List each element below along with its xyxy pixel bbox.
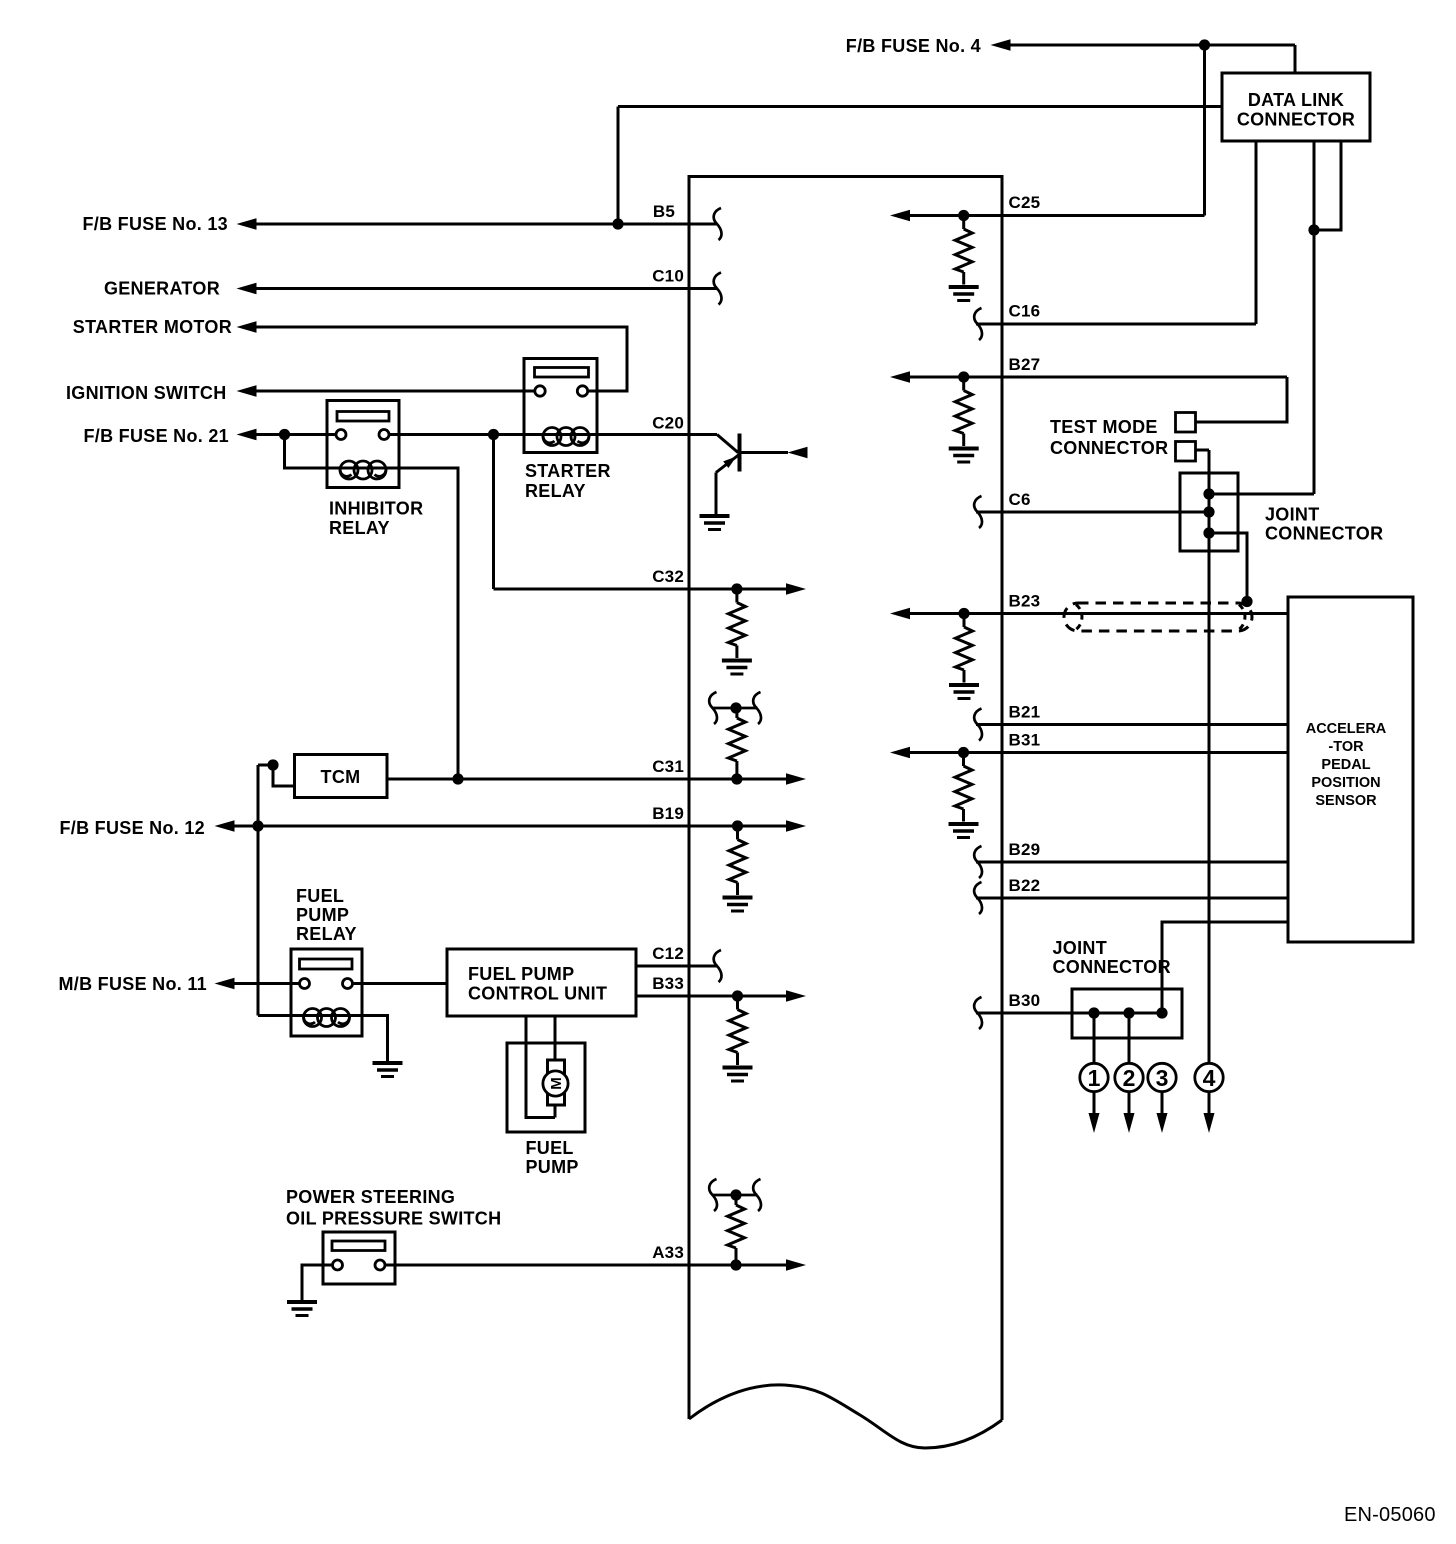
node circle 1 — [1080, 1063, 1108, 1091]
wire sensor 5th pin to lower joint connector — [1162, 922, 1288, 1013]
wire inhibitor coil to C31 riser — [399, 468, 458, 779]
starter relay contact pin left — [535, 386, 545, 396]
node circle 2 — [1115, 1063, 1143, 1091]
ECM torn bottom edge wave — [689, 1385, 1002, 1448]
arrow B33 internal — [786, 990, 806, 1002]
wire C16 riser to DLC — [1255, 141, 1258, 324]
svg-text:CONNECTOR: CONNECTOR — [1050, 438, 1168, 458]
wire B5 riser — [617, 107, 620, 225]
svg-text:JOINT: JOINT — [1265, 505, 1320, 525]
svg-text:SENSOR: SENSOR — [1315, 793, 1377, 809]
svg-text:OIL PRESSURE SWITCH: OIL PRESSURE SWITCH — [286, 1209, 501, 1229]
connector break C16 — [974, 308, 982, 340]
wire emitter to ground — [715, 473, 718, 515]
transistor Q1 collector line — [740, 451, 789, 454]
node A33 — [730, 1259, 741, 1270]
connector break B5 — [714, 208, 722, 240]
wire C10 pin line — [256, 287, 717, 290]
arrow generator — [237, 283, 257, 295]
wire B27 pin line — [909, 376, 1287, 379]
connector break B30 — [974, 997, 982, 1029]
svg-text:A33: A33 — [652, 1243, 684, 1262]
svg-text:-TOR: -TOR — [1328, 739, 1364, 755]
wire J2 pin1 drop — [1093, 1013, 1096, 1065]
fuel pump relay contact pin right — [343, 979, 353, 989]
node junction on fuse4 line — [1199, 39, 1210, 50]
wire DLC 3rd pin — [1314, 141, 1341, 230]
arrow C25 internal — [890, 210, 910, 222]
svg-text:2: 2 — [1123, 1065, 1136, 1091]
wire C6 pin line — [976, 511, 1209, 514]
node C31 inhibitor branch — [452, 773, 463, 784]
svg-text:C12: C12 — [652, 944, 684, 963]
starter relay contact bar — [535, 368, 589, 378]
wire JC pin1 to DLC riser — [1209, 493, 1314, 496]
svg-text:STARTER MOTOR: STARTER MOTOR — [73, 317, 232, 337]
node circle 4 — [1195, 1063, 1223, 1091]
wire left bus vertical — [257, 765, 260, 1016]
shield inner arc left — [1076, 605, 1082, 630]
svg-text:C20: C20 — [652, 414, 684, 433]
svg-text:C10: C10 — [652, 267, 684, 286]
svg-text:C32: C32 — [652, 567, 684, 586]
wire C32 pin line — [494, 588, 788, 591]
svg-text:C31: C31 — [652, 757, 684, 776]
svg-text:TEST MODE: TEST MODE — [1050, 417, 1158, 437]
node J2 pin3 — [1156, 1007, 1167, 1018]
svg-text:B22: B22 — [1009, 876, 1041, 895]
node B33 — [732, 990, 743, 1001]
connector break B21 — [974, 709, 982, 741]
accelerator pedal position sensor box — [1288, 597, 1413, 942]
svg-text:F/B FUSE No. 12: F/B FUSE No. 12 — [59, 818, 205, 838]
svg-text:B19: B19 — [652, 804, 684, 823]
connector break C10 — [714, 273, 722, 305]
node J2 pin2 — [1123, 1007, 1134, 1018]
svg-text:CONTROL UNIT: CONTROL UNIT — [468, 984, 607, 1004]
arrow A33 internal — [786, 1259, 806, 1271]
svg-text:POSITION: POSITION — [1311, 775, 1380, 791]
ground power steering switch — [287, 1302, 317, 1316]
svg-text:RELAY: RELAY — [329, 518, 390, 538]
wire test mode pin2 to joint connector — [1196, 449, 1209, 452]
svg-text:B29: B29 — [1009, 840, 1041, 859]
wire motor bottom stub — [554, 1105, 557, 1118]
resistor R-B19 to ground — [723, 826, 753, 911]
node B23 — [958, 608, 969, 619]
node JC pin2 — [1203, 506, 1214, 517]
svg-text:INHIBITOR: INHIBITOR — [329, 499, 423, 519]
shield inner arc right — [1239, 605, 1245, 630]
svg-text:CONNECTOR: CONNECTOR — [1053, 957, 1171, 977]
wire M11 to relay contact — [234, 982, 300, 985]
svg-text:B23: B23 — [1009, 592, 1041, 611]
wire B33 pin line — [636, 995, 787, 998]
resistor R-B27 to ground — [949, 377, 979, 462]
test mode connector pin 1 — [1176, 413, 1196, 433]
wire B31 pin line — [909, 751, 1288, 754]
svg-text:POWER STEERING: POWER STEERING — [286, 1187, 455, 1207]
arrow starter motor — [237, 321, 257, 333]
data link connector U1 box — [1222, 73, 1370, 141]
wire left bus to relay coil — [258, 1014, 362, 1017]
svg-text:IGNITION SWITCH: IGNITION SWITCH — [66, 383, 227, 403]
svg-text:FUEL: FUEL — [526, 1138, 574, 1158]
wire B5 pin line — [256, 223, 717, 226]
svg-text:B33: B33 — [652, 974, 684, 993]
wire inhibitor contact to starter coil — [389, 433, 524, 436]
node JC pin3 — [1203, 527, 1214, 538]
svg-text:CONNECTOR: CONNECTOR — [1265, 524, 1383, 544]
wire below circle 3 — [1161, 1092, 1164, 1116]
starter relay coil — [543, 428, 589, 446]
node B27 — [958, 371, 969, 382]
motor M1 circle — [543, 1071, 568, 1096]
svg-text:FUEL PUMP: FUEL PUMP — [468, 964, 574, 984]
svg-text:RELAY: RELAY — [296, 924, 357, 944]
svg-text:PUMP: PUMP — [296, 905, 349, 925]
resistor R-A33 — [728, 1196, 745, 1266]
svg-text:FUEL: FUEL — [296, 886, 344, 906]
wire C12 pin line — [636, 965, 717, 968]
svg-text:B5: B5 — [653, 202, 675, 221]
inhibitor relay K1 box — [327, 401, 399, 488]
wire starter motor line — [256, 327, 627, 391]
inhibitor relay contact pin right — [379, 430, 389, 440]
svg-text:TCM: TCM — [321, 767, 361, 787]
wire B27 riser to test mode connector — [1196, 377, 1287, 422]
svg-text:DATA LINK: DATA LINK — [1248, 90, 1344, 110]
wire into DLC top — [1294, 45, 1297, 73]
wire B23 pin line — [909, 612, 1288, 615]
wire relay coil to ground — [362, 1016, 388, 1062]
svg-text:M/B FUSE No. 11: M/B FUSE No. 11 — [58, 974, 207, 994]
shield dashed around B23 wire — [1064, 603, 1252, 631]
node B31 — [958, 747, 969, 758]
joint connector J2 box — [1072, 989, 1182, 1038]
resistor R-C25 to ground — [949, 216, 979, 301]
inhibitor relay coil — [340, 461, 386, 479]
resistor R-B31 to ground — [949, 753, 979, 838]
node C31 — [731, 773, 742, 784]
ground transistor — [700, 516, 730, 530]
arrow F/B fuse 12 — [215, 820, 235, 832]
inhibitor relay contact pin left — [336, 430, 346, 440]
svg-text:RELAY: RELAY — [525, 481, 586, 501]
node C25 — [958, 210, 969, 221]
wire B19 pin line — [234, 825, 787, 828]
svg-text:ACCELERA: ACCELERA — [1306, 721, 1387, 737]
node DLC pins junction — [1308, 224, 1319, 235]
fuel pump box — [507, 1043, 585, 1132]
power steering switch box — [323, 1232, 395, 1284]
node circle 3 — [1148, 1063, 1176, 1091]
node starter coil branch — [488, 429, 499, 440]
svg-text:B30: B30 — [1009, 991, 1041, 1010]
fuel pump relay K3 box — [291, 949, 362, 1036]
wire F/B fuse No.4 horizontal — [1010, 44, 1295, 47]
arrow B27 internal — [890, 371, 910, 383]
svg-text:CONNECTOR: CONNECTOR — [1237, 110, 1355, 130]
wire B29 pin line — [976, 861, 1288, 864]
starter relay contact pin right — [577, 386, 587, 396]
break node above C31 resistor — [709, 692, 761, 724]
wire JC pin3 to shield — [1209, 533, 1247, 601]
resistor R-C31 — [728, 709, 745, 779]
wire DLC pin to joint connector riser — [1313, 141, 1316, 494]
arrow F/B fuse 13 — [237, 218, 257, 230]
arrow into collector — [788, 447, 808, 459]
node C32 — [731, 583, 742, 594]
node F21 branch — [279, 429, 290, 440]
wire B30 pin line — [976, 1012, 1162, 1015]
wire below circle 4 — [1208, 1092, 1211, 1116]
transistor Q1 emitter — [716, 455, 739, 473]
wire branch down to C32 — [492, 435, 495, 590]
node shield connection — [1241, 596, 1252, 607]
wire B21 pin line — [976, 723, 1288, 726]
TCM box — [295, 755, 388, 798]
break node above A33 resistor — [709, 1179, 761, 1211]
starter relay coil line C20 — [524, 433, 717, 436]
transistor Q1 base link — [717, 435, 738, 453]
svg-text:M: M — [548, 1077, 565, 1090]
svg-text:F/B FUSE No. 21: F/B FUSE No. 21 — [83, 426, 229, 446]
wire C25 pin line — [909, 214, 1205, 217]
svg-text:B27: B27 — [1009, 355, 1041, 374]
svg-text:1: 1 — [1088, 1065, 1101, 1091]
arrow F/B fuse 21 — [237, 429, 257, 441]
wire below circle 2 — [1128, 1092, 1131, 1116]
fuel pump control unit box — [447, 949, 636, 1016]
emitter arrowhead — [723, 456, 736, 468]
arrow B23 internal — [890, 608, 910, 620]
svg-text:STARTER: STARTER — [525, 461, 611, 481]
transistor Q1 bar — [738, 434, 742, 472]
node B19 — [732, 820, 743, 831]
arrow C31 internal — [786, 773, 806, 785]
switch bar — [332, 1241, 385, 1251]
wire ignition switch line — [256, 390, 535, 393]
node JC pin1 — [1203, 488, 1214, 499]
node B5 — [612, 218, 623, 229]
wire control unit to pump motor left — [526, 1016, 555, 1118]
arrow M/B fuse 11 — [215, 978, 235, 990]
inhibitor relay coil line — [327, 467, 399, 470]
wire switch to ground — [302, 1265, 333, 1300]
arrow ignition switch — [237, 385, 257, 397]
wire C16 pin line — [976, 323, 1256, 326]
wire TCM left bracket — [258, 765, 295, 786]
svg-text:F/B FUSE No. 4: F/B FUSE No. 4 — [846, 36, 981, 56]
resistor R-B23 to ground — [949, 614, 979, 699]
switch pin left — [333, 1260, 343, 1270]
fuel pump motor frame — [548, 1060, 565, 1105]
connector break B29 — [974, 846, 982, 878]
ground fuel pump relay — [373, 1063, 403, 1077]
wire C31 pin line — [387, 778, 787, 781]
wire F21 to inhibitor relay contact — [256, 433, 336, 436]
switch pin right — [375, 1260, 385, 1270]
wire joint connector vertical bus — [1208, 450, 1211, 1065]
connector break C6 — [974, 496, 982, 528]
connector break C12 — [714, 950, 722, 982]
fuel pump relay coil — [304, 1009, 350, 1027]
svg-text:B31: B31 — [1009, 731, 1041, 750]
wire F21 branch to inhibitor coil — [285, 435, 328, 469]
wire below circle 1 — [1093, 1092, 1096, 1116]
wire control unit to pump motor right — [554, 1016, 557, 1060]
wire DLC left pin to B5 riser — [618, 105, 1222, 108]
node J2 pin1 — [1088, 1007, 1099, 1018]
resistor R-B33 to ground — [723, 996, 753, 1081]
node TCM corner — [267, 759, 278, 770]
svg-text:F/B FUSE No. 13: F/B FUSE No. 13 — [82, 214, 228, 234]
svg-text:JOINT: JOINT — [1053, 938, 1108, 958]
arrow C32 internal — [786, 583, 806, 595]
svg-text:EN-05060: EN-05060 — [1344, 1504, 1436, 1526]
wire B22 pin line — [976, 897, 1288, 900]
svg-text:PUMP: PUMP — [526, 1157, 579, 1177]
wire J2 pin2 drop — [1128, 1013, 1131, 1065]
wire C25 riser — [1203, 45, 1206, 216]
test mode connector pin 2 — [1176, 442, 1196, 462]
arrow B31 internal — [890, 747, 910, 759]
joint connector J1 box — [1180, 473, 1238, 551]
svg-text:4: 4 — [1203, 1065, 1216, 1091]
wire A33 pin line — [385, 1264, 787, 1267]
svg-text:3: 3 — [1156, 1065, 1169, 1091]
svg-text:C6: C6 — [1009, 490, 1031, 509]
resistor R-C32 to ground — [722, 589, 752, 674]
ECM box (main control module outline with torn wavy bottom) — [689, 177, 1002, 1421]
svg-text:B21: B21 — [1009, 703, 1041, 722]
connector break B22 — [974, 882, 982, 914]
fuel pump relay contact pin left — [300, 979, 310, 989]
inhibitor relay contact bar — [337, 412, 389, 422]
svg-text:PEDAL: PEDAL — [1321, 757, 1370, 773]
wire relay contact to control unit — [353, 982, 448, 985]
arrow B19 internal — [786, 820, 806, 832]
fuel pump relay contact bar — [300, 959, 353, 969]
node B19 branch — [252, 820, 263, 831]
starter relay K2 box — [524, 359, 597, 453]
svg-text:C16: C16 — [1009, 302, 1041, 321]
svg-text:GENERATOR: GENERATOR — [104, 279, 220, 299]
svg-text:C25: C25 — [1009, 193, 1041, 212]
arrow to F/B fuse No.4 — [991, 39, 1011, 51]
